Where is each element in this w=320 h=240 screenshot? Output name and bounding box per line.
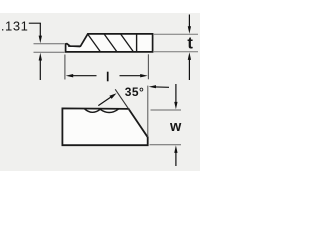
svg-text:w: w bbox=[169, 119, 182, 135]
svg-text:.131: .131 bbox=[1, 18, 29, 33]
svg-text:t: t bbox=[187, 35, 193, 53]
svg-text:35°: 35° bbox=[125, 85, 144, 99]
